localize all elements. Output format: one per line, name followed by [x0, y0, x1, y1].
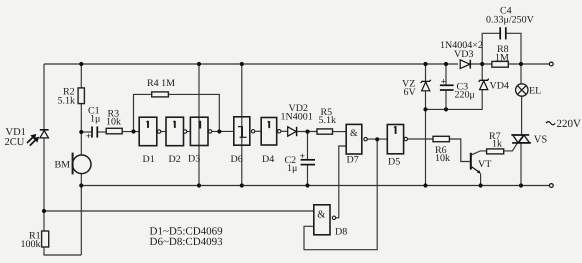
svg-text:&: &	[350, 128, 358, 139]
svg-text:220V: 220V	[557, 118, 582, 130]
svg-text:VD4: VD4	[490, 81, 509, 92]
svg-text:VT: VT	[478, 159, 491, 170]
svg-text:D5: D5	[388, 157, 400, 168]
svg-text:5.1k: 5.1k	[319, 115, 337, 126]
svg-text:+: +	[300, 152, 305, 162]
svg-text:1μ: 1μ	[90, 114, 100, 125]
svg-text:EL: EL	[529, 86, 541, 97]
svg-text:D2: D2	[169, 154, 181, 165]
svg-text:+: +	[86, 132, 91, 142]
svg-text:220μ: 220μ	[455, 90, 475, 101]
svg-text:5.1k: 5.1k	[58, 96, 76, 107]
svg-text:10k: 10k	[106, 117, 121, 128]
svg-text:6V: 6V	[404, 87, 417, 98]
svg-text:0.33μ/250V: 0.33μ/250V	[486, 15, 535, 26]
svg-text:&: &	[317, 209, 325, 220]
svg-text:VS: VS	[534, 135, 548, 146]
svg-text:BM: BM	[55, 160, 71, 171]
svg-text:D1: D1	[143, 154, 155, 165]
svg-text:D4: D4	[262, 154, 274, 165]
svg-text:VD3: VD3	[454, 49, 473, 60]
svg-text:R4 1M: R4 1M	[147, 78, 175, 89]
svg-text:2CU: 2CU	[5, 137, 25, 148]
svg-text:10k: 10k	[435, 153, 450, 164]
svg-text:D8: D8	[335, 227, 347, 238]
svg-text:D3: D3	[188, 154, 200, 165]
svg-text:1N4001: 1N4001	[281, 112, 313, 123]
svg-text:100k: 100k	[21, 239, 41, 250]
svg-text:+: +	[441, 77, 446, 87]
svg-text:D6: D6	[231, 154, 243, 165]
svg-text:1M: 1M	[495, 53, 509, 64]
svg-text:D7: D7	[347, 155, 359, 166]
svg-text:1k: 1k	[492, 139, 502, 150]
svg-text:D6~D8:CD4093: D6~D8:CD4093	[150, 236, 224, 248]
svg-text:1μ: 1μ	[287, 163, 297, 174]
